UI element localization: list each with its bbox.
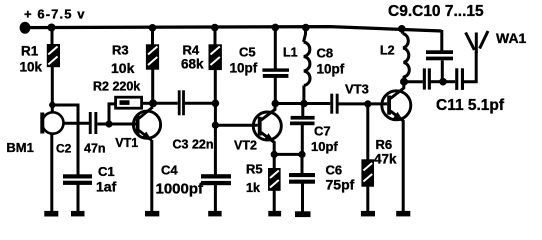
supply rail left end blob [20,22,31,34]
svg-text:R4: R4 [183,43,200,58]
ground (R5) [268,211,281,217]
svg-text:10k: 10k [111,60,135,76]
node dot VT2 emitter / R5 [271,151,278,158]
svg-text:1af: 1af [96,179,117,195]
antenna left arm [466,33,475,51]
node dot L2 rail [398,25,406,33]
ground (C1) [71,211,85,217]
svg-text:WA1: WA1 [496,30,527,46]
svg-text:R2 220k: R2 220k [93,80,140,94]
wire node A [275,102,330,105]
wire C2 to VT1 base [97,123,136,126]
svg-text:VT3: VT3 [345,82,369,97]
wire C7 top lead [301,104,304,117]
svg-text:BM1: BM1 [6,140,33,155]
microphone BM1 [40,112,63,133]
capacitor C6 [289,173,315,184]
wire emitter node to C6 branch [274,153,302,156]
svg-text:75pf: 75pf [326,177,355,193]
svg-text:47n: 47n [84,141,106,155]
inductor L2 [403,34,410,82]
svg-text:L1: L1 [283,46,298,60]
svg-text:C9.C10 7...15: C9.C10 7...15 [388,3,484,20]
node dot R1 rail [48,24,56,32]
wire L1 bottom lead [302,86,305,104]
wire C5 drop from rail [274,28,277,70]
wire VT1 emitter to ground [150,140,153,212]
wire node down to VT2 base level [214,103,217,125]
ground (C6) [295,211,311,217]
wire node to C1 branch [52,105,78,175]
svg-text:C1: C1 [98,164,115,179]
wire C1 to ground [77,185,80,212]
svg-text:47k: 47k [374,152,397,167]
wire VT2 base wire [215,124,257,127]
svg-text:C6: C6 [326,163,343,178]
transistor VT1 [133,107,160,141]
svg-text:R1: R1 [21,44,39,59]
svg-text:C7: C7 [314,124,331,139]
svg-text:C11 5.1pf: C11 5.1pf [436,97,505,114]
resistor R6 [361,159,374,186]
node dot VT1 base/R2 [105,120,112,127]
svg-text:+ 6-7.5 v: + 6-7.5 v [24,7,86,22]
capacitor C2 [89,112,98,134]
wire R6 drop [366,104,369,160]
node dot L1 / C7 [300,100,308,108]
svg-text:VT2: VT2 [234,139,257,153]
resistor R5 [268,168,281,191]
wire R5 to ground [273,191,276,212]
svg-text:1000pf: 1000pf [156,181,205,198]
resistor R4 [209,44,222,70]
transistor VT3 [382,91,411,122]
wire R2 right lead [142,102,153,105]
svg-text:R3: R3 [112,43,129,58]
svg-text:L2: L2 [380,44,395,58]
capacitor C5 [262,68,289,78]
capacitor C10 [426,50,453,60]
wire C9 to C10 node [431,80,443,83]
capacitor C3 [178,90,185,115]
svg-text:C5: C5 [239,45,256,60]
wire C5 to node A [274,78,277,104]
ground (VT3 emitter) [396,211,410,217]
node dot VT2 collector / C5 [272,100,280,108]
wire C7 bottom lead [301,125,304,155]
node dot C7 / C6 [298,151,305,158]
node dot C10 bottom [439,78,447,86]
wire C8 to VT3 base [339,102,388,105]
wire VT3 collector node to C9 [404,80,423,83]
svg-text:C2: C2 [56,141,72,155]
svg-text:R5: R5 [246,162,263,177]
wire VT3 emitter [390,111,403,212]
wire VT2 emitter [261,132,274,154]
wire node down to C4 [214,125,217,174]
svg-text:R6: R6 [376,137,393,152]
wire power rail [20,27,442,31]
capacitor C11 [455,68,464,90]
wire VT1 collector node to C3 [153,102,178,105]
resistor R3 [146,44,159,69]
wire R1 drop [51,28,54,45]
wire R6 to ground [366,187,369,212]
wire R3 drop [151,28,154,45]
node dot R4 rail [211,24,219,32]
wire L1 top lead [304,27,306,42]
ground (R6) [361,211,375,217]
resistor R1 [47,44,60,67]
node dot R4/C3 [212,100,220,108]
wire C11 to antenna lead [464,52,476,82]
resistor R2 [116,97,142,108]
wire R4 to node [214,70,217,103]
svg-text:C4: C4 [161,163,178,178]
svg-text:10pf: 10pf [311,139,338,154]
wire VT2 collector [261,104,275,121]
wire L2 top lead [400,28,404,34]
ground (VT1 emitter) [145,211,159,217]
node dot L1 rail [302,24,310,32]
wire R3 to VT1 collector node [151,70,154,105]
inductor L1 [304,42,310,86]
capacitor C8 [330,94,338,114]
wire C3 to R4 node [185,102,216,105]
wire mic to ground [50,134,53,212]
transistor VT2 [253,112,281,143]
wire C10 top lead from rail corner [440,30,443,51]
wire C6 top lead [301,154,304,173]
capacitor C9 [423,68,431,89]
capacitor C1 [63,174,92,185]
svg-text:10pf: 10pf [317,62,345,77]
antenna WA1 mast [475,33,478,54]
node dot mic/C1 [49,102,55,108]
ground (microphone) [44,211,58,217]
wire C6 to ground [301,184,304,212]
node dot R6 / VT3 base [364,100,371,107]
antenna right arm [480,31,488,49]
node dot VT1 collector [149,99,157,107]
capacitor C7 [290,116,315,125]
svg-text:C8: C8 [317,46,334,61]
wire R2 left lead [109,104,116,124]
svg-text:VT1: VT1 [115,136,138,150]
wire R4 drop [214,28,217,45]
wire C10 node to C11 [443,80,455,83]
node dot C5 rail [272,24,280,32]
wire mic output to C2 [64,122,90,125]
node dot R3 rail [149,24,157,32]
wire C10 bottom lead [441,60,444,81]
svg-text:C3 22n: C3 22n [173,138,214,152]
wire VT3 collector [390,82,403,99]
svg-text:10pf: 10pf [230,61,258,76]
ground (C4) [208,211,221,217]
wire VT2 emitter node to R5 [273,154,276,168]
svg-text:68k: 68k [181,57,204,72]
svg-text:1k: 1k [246,181,260,195]
capacitor C4 [201,174,231,185]
wire C4 to ground [214,185,217,212]
node dot VT2 base [212,122,219,129]
svg-text:10k: 10k [20,60,43,75]
node dot L2 / VT3 collector [400,78,408,86]
wire R1 to mic node [51,67,54,113]
